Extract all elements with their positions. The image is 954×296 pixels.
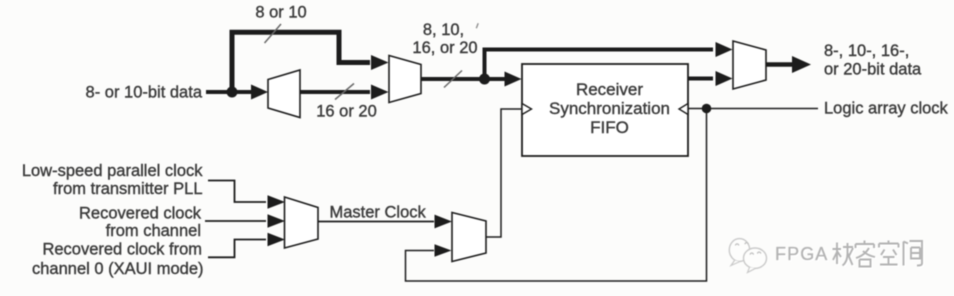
wire: logic array clock feedback to clock mux — [406, 109, 707, 282]
label: 8-, 10-, 16-, or 20-bit data — [824, 42, 922, 79]
svg-text:Logic array clock: Logic array clock — [824, 100, 949, 118]
label: Recovered clock from channel — [79, 205, 202, 241]
label: 16 or 20 — [316, 103, 377, 121]
svg-text:Low-speed parallel clock: Low-speed parallel clock — [22, 162, 203, 180]
svg-text:from transmitter PLL: from transmitter PLL — [53, 180, 202, 198]
watermark: hanzi ji (extreme) — [833, 243, 855, 267]
svg-text:Master Clock: Master Clock — [330, 204, 427, 222]
pin: FIFO write clock (open triangle, left edge) — [522, 104, 532, 115]
label: 8 or 10 — [255, 4, 306, 22]
watermark: hanzi kong (empty) — [879, 241, 900, 266]
watermark: FPGA latin text — [775, 244, 830, 265]
bus-width slash: 8 or 10 — [265, 24, 282, 43]
svg-text:channel 0 (XAUI mode): channel 0 (XAUI mode) — [32, 260, 204, 278]
svg-text:16 or 20: 16 or 20 — [316, 103, 377, 121]
pin: FIFO read clock (open triangle, right edge) — [679, 104, 688, 115]
block: Receiver Synchronization FIFO — [522, 64, 688, 156]
label: 8- or 10-bit data — [86, 84, 203, 102]
label: Master Clock — [330, 204, 427, 222]
node: input junction — [227, 87, 238, 98]
svg-text:FIFO: FIFO — [590, 118, 629, 137]
wire: low-speed parallel clock input — [208, 181, 285, 209]
wire: FIFO bypass bus to output mux — [485, 42, 733, 79]
svg-text:8-, 10-, 16-,: 8-, 10-, 16-, — [824, 42, 909, 60]
wire: mux output bus to FIFO — [421, 72, 522, 87]
svg-text:Receiver: Receiver — [576, 80, 643, 99]
svg-text:from channel: from channel — [106, 222, 201, 240]
watermark: hanzi ke (guest) — [856, 241, 877, 268]
wire: 8-or-10 bypass bus — [232, 32, 389, 92]
demux U1: byte deserializer 8/10 to 16/20 — [268, 70, 300, 118]
label: Low-speed parallel clock from transmitter PLL — [22, 162, 203, 198]
wire: FIFO output bus — [688, 71, 733, 86]
watermark: FPGA geek space logo icon — [729, 239, 766, 273]
mux U5: FIFO write clock mux — [452, 213, 486, 262]
svg-text:FPGA: FPGA — [775, 244, 828, 264]
scan speck — [476, 23, 478, 28]
wire: input data bus — [206, 85, 268, 100]
node: FIFO input junction — [479, 74, 490, 85]
mux U2: width select mux — [389, 56, 421, 103]
node: logic array clock junction — [702, 104, 712, 114]
mux U4: master clock select mux — [285, 197, 319, 248]
svg-text:8, 10,: 8, 10, — [423, 21, 464, 39]
wire: output data bus — [766, 56, 811, 73]
svg-text:Recovered clock from: Recovered clock from — [42, 241, 202, 259]
wire: recovered clock input — [205, 214, 285, 228]
svg-text:8 or 10: 8 or 10 — [255, 4, 306, 22]
wire: recovered clock channel 0 input — [208, 233, 285, 258]
wire: master clock mux output to FIFO write clock — [486, 109, 521, 237]
wire: deserializer output 16/20 bus — [300, 85, 389, 100]
svg-text:Synchronization: Synchronization — [549, 99, 670, 118]
wire: master clock — [318, 215, 452, 229]
bus-width slash: 8/10/16/20 — [444, 71, 462, 88]
label: Logic array clock — [824, 100, 949, 118]
svg-text:16, or 20: 16, or 20 — [412, 39, 477, 57]
bus-width slash: 16 or 20 — [335, 84, 354, 100]
watermark: hanzi jian (between) — [904, 241, 924, 267]
mux U3: output mux — [733, 41, 766, 89]
svg-text:8- or 10-bit data: 8- or 10-bit data — [86, 84, 203, 102]
label: 8, 10, 16, or 20 — [412, 21, 477, 57]
label: Recovered clock from channel 0 (XAUI mode) — [32, 241, 204, 279]
wire: logic array clock — [688, 108, 818, 110]
svg-text:Recovered clock: Recovered clock — [79, 205, 202, 223]
svg-text:or 20-bit data: or 20-bit data — [824, 61, 922, 79]
